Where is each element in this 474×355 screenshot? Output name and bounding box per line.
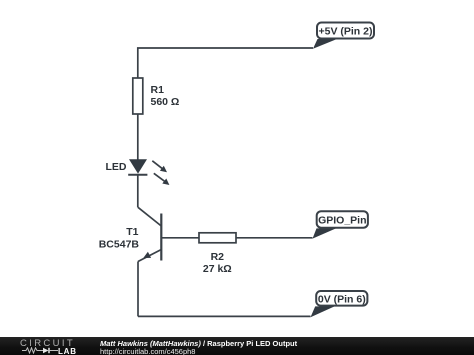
svg-text:+5V (Pin 2): +5V (Pin 2) [319, 26, 373, 38]
svg-text:560 Ω: 560 Ω [151, 96, 180, 108]
svg-text:T1: T1 [126, 226, 138, 238]
svg-text:0V (Pin 6): 0V (Pin 6) [318, 294, 366, 306]
svg-text:BC547B: BC547B [99, 239, 140, 251]
svg-text:GPIO_Pin: GPIO_Pin [318, 215, 366, 227]
svg-text:LED: LED [106, 161, 127, 173]
svg-text:R1: R1 [151, 84, 165, 96]
svg-text:R2: R2 [211, 251, 225, 263]
svg-text:27 kΩ: 27 kΩ [203, 263, 232, 275]
